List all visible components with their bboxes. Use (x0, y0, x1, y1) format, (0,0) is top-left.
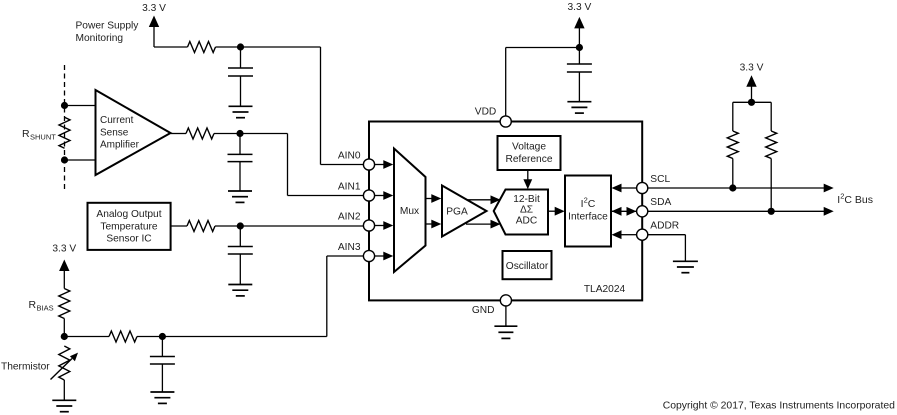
svg-text:Thermistor: Thermistor (1, 362, 50, 373)
svg-text:SDA: SDA (650, 197, 671, 208)
svg-text:AIN0: AIN0 (338, 151, 361, 162)
svg-text:Amplifier: Amplifier (100, 139, 140, 150)
svg-text:Monitoring: Monitoring (76, 33, 124, 44)
svg-text:ADC: ADC (516, 216, 538, 227)
svg-text:R: R (29, 299, 37, 311)
svg-text:Mux: Mux (400, 206, 419, 217)
svg-text:3.3 V: 3.3 V (52, 244, 76, 255)
svg-text:SCL: SCL (650, 174, 670, 185)
svg-text:Power Supply: Power Supply (76, 21, 140, 32)
svg-text:I2C Bus: I2C Bus (837, 192, 873, 207)
svg-text:SHUNT: SHUNT (30, 133, 56, 142)
svg-text:PGA: PGA (446, 207, 468, 218)
svg-text:AIN2: AIN2 (338, 212, 361, 223)
svg-text:Copyright © 2017, Texas Instru: Copyright © 2017, Texas Instruments Inco… (663, 401, 895, 412)
svg-text:Sensor IC: Sensor IC (106, 234, 151, 245)
svg-text:Interface: Interface (568, 212, 608, 223)
svg-text:Analog Output: Analog Output (96, 209, 161, 220)
svg-text:3.3 V: 3.3 V (740, 63, 764, 74)
svg-text:Voltage: Voltage (512, 142, 546, 153)
svg-text:Oscillator: Oscillator (506, 261, 549, 272)
svg-text:ADDR: ADDR (650, 220, 679, 231)
svg-text:BIAS: BIAS (37, 304, 54, 313)
svg-text:3.3 V: 3.3 V (142, 3, 166, 14)
svg-text:AIN1: AIN1 (338, 182, 361, 193)
svg-text:Sense: Sense (100, 127, 129, 138)
svg-text:R: R (22, 128, 30, 140)
svg-text:12-Bit: 12-Bit (513, 194, 540, 205)
svg-text:TLA2024: TLA2024 (584, 284, 626, 295)
svg-text:Temperature: Temperature (100, 221, 158, 232)
svg-text:3.3 V: 3.3 V (568, 2, 592, 13)
svg-text:Reference: Reference (505, 154, 552, 165)
svg-text:AIN3: AIN3 (338, 242, 361, 253)
svg-text:GND: GND (472, 305, 495, 316)
svg-text:ΔΣ: ΔΣ (520, 204, 533, 215)
svg-text:I2C: I2C (581, 196, 596, 211)
svg-text:Current: Current (100, 115, 134, 126)
svg-text:VDD: VDD (475, 107, 497, 118)
